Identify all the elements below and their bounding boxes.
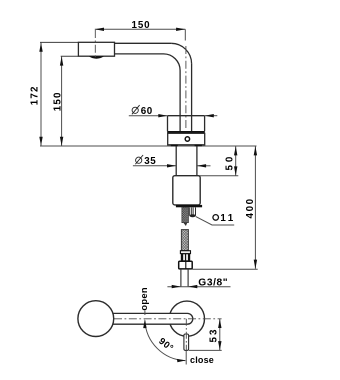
retaining washer [176,205,202,207]
dim D11: circle glyph [213,215,219,221]
swing arc 90deg [145,321,185,361]
svg-text:53: 53 [208,328,219,343]
dim 150 vertical: dimension line [61,56,63,145]
svg-text:150: 150 [52,91,63,111]
flange box [168,133,205,145]
spout bottom line [115,53,164,55]
svg-text:172: 172 [30,85,41,105]
dim 50: arrows [234,146,237,175]
dim 172: dimension line [40,43,42,146]
flange joint band [167,131,205,133]
dim 400: dimension line [254,146,256,269]
set screw [185,137,189,141]
svg-text:open: open [139,287,149,310]
D35 neck cylinder [176,146,197,175]
top view body circle [169,301,204,336]
riser pipe right line [191,64,193,132]
spout top line [115,42,172,44]
dim 400: arrows [254,146,257,269]
dim 53: arrows [218,319,221,351]
open leader line [144,311,146,316]
body cylinder D60 [168,116,205,132]
dim D60: label [132,105,140,114]
hose nut [179,261,193,269]
dim 50: dimension line [235,146,237,175]
flange bottom lip [171,145,178,147]
dim D35: line and arrows [133,165,211,167]
riser pipe left line [179,71,181,132]
knob circle [78,301,114,337]
svg-text:400: 400 [245,197,256,218]
dim D35: label [135,155,143,164]
hose collar [180,251,190,254]
aerator outlet [89,56,104,58]
svg-text:G3/8": G3/8" [198,277,228,288]
svg-text:60: 60 [141,106,153,117]
lever centerline [114,318,222,320]
svg-text:150: 150 [131,20,150,31]
bend outer arc [171,43,191,63]
G3/8 thread pipe [181,269,188,287]
svg-text:11: 11 [220,213,235,224]
dim 53: dimension line [219,319,221,351]
dim 172: extension line at spout top [40,41,78,43]
dim 400: extension line bottom [192,268,257,270]
spout aerator head box [78,42,114,56]
flexible hose braid [181,230,188,251]
dim 150 vertical: arrows [60,56,63,145]
threaded shank [182,207,189,222]
svg-text:35: 35 [144,156,156,167]
dim 150 top: dimension line [95,29,186,40]
dim 172: arrows [39,43,42,146]
dim 150 vertical: extension line at spout bottom [61,55,79,57]
riser centerline [185,46,187,131]
dim 150 top: arrows [95,28,186,31]
dim G3/8: line and arrows [167,286,230,288]
base plane extension line [40,145,257,147]
cartridge housing [173,176,200,205]
dim D11: leader [196,217,234,225]
body vertical centerline [185,319,187,350]
swing arc arrow up (open end) [143,319,146,328]
dim D60: line and arrows [129,115,218,117]
shank tip [183,223,187,226]
dim 53: extension lines [189,349,222,351]
close lever [184,334,189,350]
aerator centerline [94,30,96,60]
hose crimp [181,254,190,261]
bend inner arc [164,54,181,71]
svg-text:50: 50 [224,154,235,171]
swing arc arrow right (close end) [177,359,186,362]
svg-text:close: close [190,355,214,365]
supply tube [189,208,195,216]
dim 50: extension line bottom [197,175,238,177]
lever bar [112,313,193,324]
hose nut hex line [185,261,187,268]
close extension line [185,350,187,364]
